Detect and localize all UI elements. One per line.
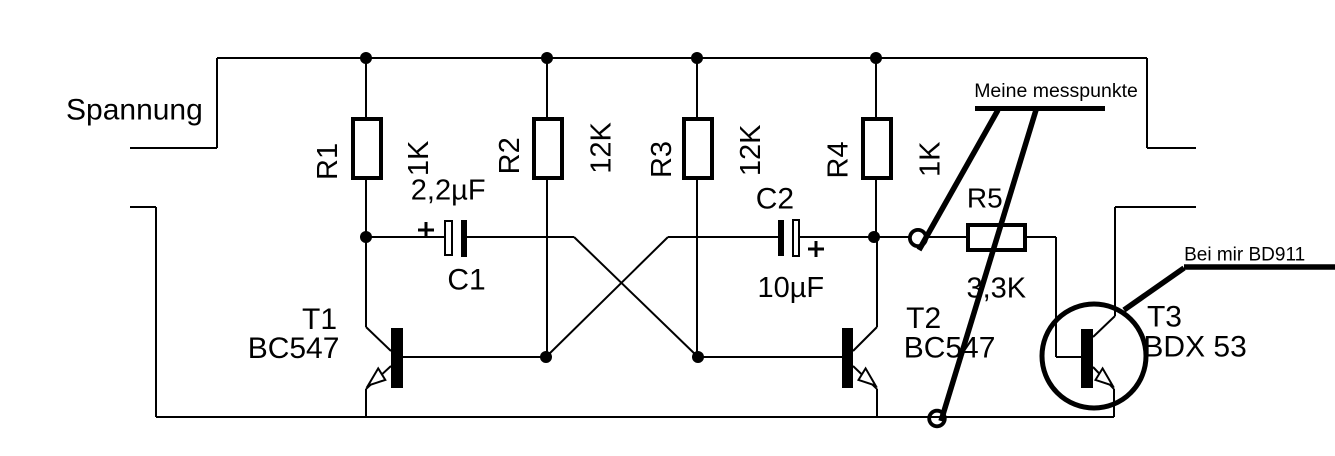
node junction top R2	[541, 52, 553, 64]
capacitor C2 negative plate	[778, 220, 784, 256]
svg-text:BDX 53: BDX 53	[1143, 330, 1246, 363]
wire T3 collector diagonal	[1093, 316, 1115, 337]
wire top supply rail	[217, 57, 1147, 59]
svg-text:Spannung: Spannung	[66, 94, 203, 127]
wire R4 top stem	[875, 58, 877, 117]
svg-text:R3: R3	[646, 141, 678, 178]
svg-text:12K: 12K	[735, 124, 767, 176]
underline Meine messpunkte	[975, 106, 1105, 111]
wire R5 right	[1027, 236, 1056, 238]
wire T3 collector vertical	[1114, 207, 1116, 316]
svg-text:R2: R2	[494, 137, 526, 174]
svg-text:3,3K: 3,3K	[966, 272, 1026, 304]
wire T2 emitter diagonal	[853, 366, 877, 389]
wire lower-left stub	[130, 206, 156, 208]
wire left ground vertical	[155, 207, 157, 417]
node T1 base R2	[540, 351, 552, 363]
resistor R4	[863, 119, 891, 178]
wire T2 emitter vertical	[876, 389, 878, 417]
transistor T3 circle	[1042, 304, 1146, 408]
wire T1 emitter vertical	[365, 389, 367, 417]
transistor T1 base bar	[391, 328, 403, 388]
underline Bei mir BD911	[1184, 264, 1335, 270]
wire T1 base	[403, 356, 546, 358]
wire measurement point to R5	[928, 236, 966, 238]
wire T2 collector vertical	[876, 237, 878, 327]
transistor T3 base bar	[1081, 329, 1093, 388]
wire R3 bottom stem	[696, 180, 698, 357]
capacitor C1 positive plate	[445, 221, 452, 255]
resistor R1	[353, 119, 381, 178]
svg-text:R4: R4	[823, 141, 855, 178]
resistor R5	[968, 225, 1025, 250]
wire C2 left	[668, 236, 778, 238]
wire R5 corner vertical	[1055, 237, 1057, 357]
wire top-right step vertical	[1146, 58, 1148, 148]
resistor R3	[684, 119, 712, 178]
node junction top R3	[691, 52, 703, 64]
wire left supply step vertical	[216, 58, 218, 148]
capacitor C1 negative plate	[461, 220, 467, 257]
svg-text:C2: C2	[756, 183, 794, 216]
svg-text:BC547: BC547	[248, 332, 340, 365]
wire R3 top stem	[696, 58, 698, 117]
svg-text:BC547: BC547	[904, 332, 996, 365]
node junction top R4	[870, 52, 882, 64]
wire top-right stub	[1147, 147, 1196, 149]
wire T3 emitter vertical	[1113, 389, 1115, 417]
node junction top R1	[360, 52, 372, 64]
transistor T2 emitter arrow	[859, 368, 876, 385]
capacitor C1 plus sign	[418, 222, 434, 238]
node T2 base R3	[692, 351, 704, 363]
wire C1 to T2 base node diagonal	[574, 237, 698, 357]
svg-text:R1: R1	[312, 143, 344, 180]
transistor T3 emitter arrow	[1096, 368, 1113, 385]
svg-text:R5: R5	[967, 183, 1003, 214]
svg-text:1K: 1K	[403, 140, 435, 176]
measurement point 1 circle	[910, 230, 926, 246]
wire T2 base	[698, 356, 842, 358]
wire T2 collector diagonal	[853, 327, 877, 351]
capacitor C2 plus sign	[808, 241, 824, 257]
capacitor C2 positive plate	[793, 220, 799, 256]
pointer line to measurement point 2	[941, 110, 1036, 421]
wire T1 emitter diagonal	[366, 366, 391, 389]
svg-text:T3: T3	[1147, 301, 1182, 334]
svg-text:C1: C1	[447, 264, 485, 297]
resistor R2	[534, 119, 562, 178]
wire R2 top stem	[546, 58, 548, 117]
svg-text:2,2µF: 2,2µF	[411, 175, 486, 207]
wire T1 collector diagonal	[366, 327, 391, 351]
svg-text:Meine messpunkte: Meine messpunkte	[974, 80, 1138, 102]
wire T1 collector vertical	[365, 237, 367, 327]
svg-text:Bei mir BD911: Bei mir BD911	[1184, 245, 1305, 266]
svg-text:1K: 1K	[914, 141, 946, 177]
wire R4 bottom stem	[875, 180, 877, 237]
wire R2 bottom stem	[546, 180, 548, 357]
node T2 collector C2	[868, 231, 880, 243]
transistor T2 base bar	[842, 328, 853, 388]
wire R1 bottom stem	[365, 180, 367, 237]
wire C2 right	[800, 236, 910, 238]
wire left supply stub	[130, 147, 217, 149]
svg-text:12K: 12K	[586, 121, 618, 173]
measurement point 2 circle	[929, 411, 945, 427]
wire C2 to T1 base node diagonal	[546, 237, 668, 357]
wire C1 right	[467, 236, 574, 238]
wire R1 top stem	[365, 58, 367, 117]
wire T3 emitter diagonal	[1093, 367, 1114, 389]
pointer line Bei mir BD911	[1124, 268, 1184, 310]
wire T3 base	[1056, 356, 1081, 358]
svg-text:10µF: 10µF	[757, 272, 824, 304]
wire bottom ground rail	[156, 416, 1114, 418]
svg-text:T2: T2	[906, 302, 941, 335]
transistor T1 emitter arrow	[368, 368, 385, 385]
wire right output stub	[1115, 206, 1196, 208]
wire C1 left	[366, 236, 444, 238]
pointer line to measurement point 1	[919, 110, 998, 250]
node T1 collector C1	[360, 231, 372, 243]
